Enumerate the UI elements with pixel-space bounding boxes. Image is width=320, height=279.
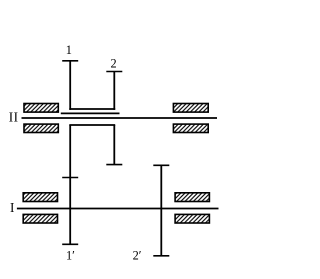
gear 1' bottom pitch tick (62, 243, 78, 245)
bearing block shaft II left lower (24, 124, 58, 132)
bearing block shaft II right lower (173, 124, 208, 132)
gear 1 top pitch tick (62, 60, 78, 62)
gear 2 top pitch tick (106, 71, 122, 73)
gear 2 radius line upper (113, 72, 115, 110)
gear 2 bottom pitch tick (106, 164, 122, 166)
svg-text:1: 1 (66, 43, 72, 57)
svg-text:1′: 1′ (66, 249, 75, 263)
bearing block shaft I right upper (175, 193, 209, 202)
gear block sleeve line (61, 112, 120, 114)
gear block lower connector (69, 124, 115, 126)
gear 2' bottom pitch tick (153, 255, 169, 257)
gear 2' top pitch tick (153, 164, 169, 166)
gear 2' radius line (160, 165, 162, 256)
svg-text:2′: 2′ (133, 248, 142, 262)
gear block upper connector (69, 108, 115, 110)
gear 2 radius line lower (113, 125, 115, 165)
gear 1 radius line upper (69, 61, 71, 110)
bearing block shaft II right upper (173, 104, 208, 113)
gear 1 lower radius line joining gear 1' radius line (69, 125, 71, 244)
svg-text:2: 2 (111, 56, 117, 70)
mesh pitch tick gears 1 and 1' (62, 177, 78, 179)
bearing block shaft I left lower (23, 214, 57, 223)
shaft II center line (22, 117, 218, 119)
bearing block shaft I right lower (175, 214, 209, 223)
svg-text:II: II (9, 110, 19, 125)
bearing block shaft I left upper (23, 193, 57, 202)
svg-text:I: I (10, 200, 14, 215)
shaft I center line (17, 208, 219, 210)
bearing block shaft II left upper (24, 104, 58, 113)
